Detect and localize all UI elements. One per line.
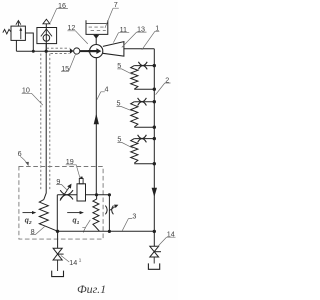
svg-text:5: 5 [117,135,121,144]
leader 16 [50,9,68,23]
tank liquid dashes [89,27,106,31]
wire regulator line left [57,194,77,196]
relief valve vent arrow [17,22,19,27]
leader 13 [122,32,147,47]
throttle restrictor [105,206,113,215]
node line4 bottom [95,193,98,196]
svg-text:12: 12 [67,23,75,32]
throttle valve 9 [60,190,73,199]
drain valve 14' [53,248,62,260]
leader 8 [30,227,44,235]
svg-text:3: 3 [132,211,136,220]
branch 1 valve [138,62,147,70]
svg-text:14: 14 [69,258,77,267]
svg-text:16: 16 [58,1,66,10]
check valve 15 ball [74,48,80,54]
valve 9 adjust arrow [60,187,70,201]
svg-text:q2: q2 [25,217,32,226]
leader 5 low [117,142,132,148]
relief valve internal arrow [20,30,22,39]
relief valve body [11,26,25,40]
leader lines [20,8,175,262]
drain valve 14 [150,246,159,257]
regulator 19 body [77,184,86,201]
regulator 19 cap [79,179,83,184]
leader 5 top [117,69,132,74]
wire valve 14 to drain [153,257,155,264]
tank liquid level [86,23,108,25]
node branch1 top [153,64,156,67]
node branch1 bottom [153,88,156,91]
heat exchanger coil 8 [39,200,57,232]
wire valve 14' to drain [57,260,59,271]
svg-text:8: 8 [31,227,35,236]
heat exchanger coil 7 [93,195,100,231]
pipe jacket dashed upper [47,47,70,49]
branch 3 top wire [134,138,154,140]
restrictor adjust arrow [109,206,115,210]
leader 4 [97,92,105,100]
q2 flow arrow [23,212,33,214]
drain symbol right [148,263,159,269]
svg-text:Фиг.1: Фиг.1 [77,282,106,296]
dashed enclosure 6 [19,167,103,240]
regulator 19 nub [80,177,82,179]
leader 5 mid [117,106,133,111]
branch 3 valve [138,135,147,143]
leader 1 [142,31,160,50]
svg-text:1: 1 [155,24,159,33]
node junction relief right [32,50,35,53]
q1 flow arrow [67,212,80,214]
pump 12 [90,45,103,58]
svg-text:6: 6 [18,149,22,158]
branch 1 bottom wire [134,88,154,90]
leader 10 [22,93,43,105]
node junction line 10 top [45,50,48,53]
branch 1 top wire [134,65,154,67]
leader 2 [156,83,171,95]
wire relief valve outlet down [15,40,17,51]
leader 11 [113,33,129,43]
pipe jacket dashed left [40,54,42,191]
node branch2 top [153,100,156,103]
branch 2 top wire [134,101,154,103]
check valve 16 seat [41,29,52,36]
branch 2 coil 5 [131,102,138,127]
wire check valve to pump (suction) [80,50,90,52]
check valve unit 16 body [37,28,57,44]
node branch2 bottom [153,126,156,129]
node coil8 bottom [56,230,59,233]
branch 2 bottom wire [134,126,154,128]
svg-text:9: 9 [56,177,60,186]
leader 19 [66,165,80,178]
leader 3 [122,219,132,231]
svg-text:5: 5 [117,99,121,108]
svg-text:11: 11 [120,25,127,34]
flow arrow down on line 2 [152,188,157,197]
ejector diffuser 11 [103,42,124,57]
check valve 15 cone [70,48,74,54]
main collector line 2 [153,49,155,247]
branch 1 coil 5 [131,66,138,90]
svg-text:15: 15 [61,64,69,73]
branch 2 valve [138,98,147,106]
svg-text:q1: q1 [72,217,79,226]
pipe 1 [124,48,154,50]
check valve 16 ball [43,35,50,42]
leader 12 [67,31,87,44]
svg-text:7: 7 [114,0,118,9]
node branch3 top [153,137,156,140]
leader 7 bottom [85,220,90,228]
svg-text:4: 4 [105,84,109,93]
tank 7 [86,20,108,34]
valve 16 vent triangle [43,19,50,24]
branch 3 bottom wire [134,163,154,165]
wire through valve 16 [45,24,47,51]
pipe jacket dashed right [49,54,51,191]
svg-text:5: 5 [117,61,121,70]
drain symbol left [52,271,64,277]
wire line 3 [58,230,155,232]
branch 3 coil 5 [131,139,138,164]
svg-text:14: 14 [167,230,175,239]
pump flow arrow [88,50,97,52]
node line3 right [153,230,156,233]
svg-text:1: 1 [79,258,82,263]
node throttle bottom [108,230,111,233]
leader 14 [157,237,175,247]
wire 19 to junction [86,194,110,196]
wire to drain valve 14' [57,231,59,248]
svg-text:7: 7 [82,225,86,234]
leader 7 top [105,8,119,28]
flow arrow up on line 4 [94,113,99,124]
pipe 10 solid [44,44,46,200]
wire relief valve right port [25,33,33,51]
svg-text:2: 2 [165,75,169,84]
wire throttle drop [108,195,110,232]
wire feed line [16,50,70,52]
svg-text:10: 10 [22,86,30,95]
leader 9 [56,185,67,191]
leader 14' [61,256,69,263]
wire tank to pump [95,34,97,44]
svg-text:13: 13 [137,24,145,33]
tank outlet cone [93,35,99,39]
return line 4 [95,58,97,195]
leader 6 with arrow [20,156,27,163]
wire regulator corner down [56,195,58,232]
node branch3 bottom [153,162,156,165]
reference labels [18,0,175,267]
leader 15 [61,54,76,72]
pipe jacket dashed lower [51,53,70,55]
node throttle top [108,193,111,196]
svg-text:19: 19 [66,157,74,166]
relief valve spring [3,29,11,34]
